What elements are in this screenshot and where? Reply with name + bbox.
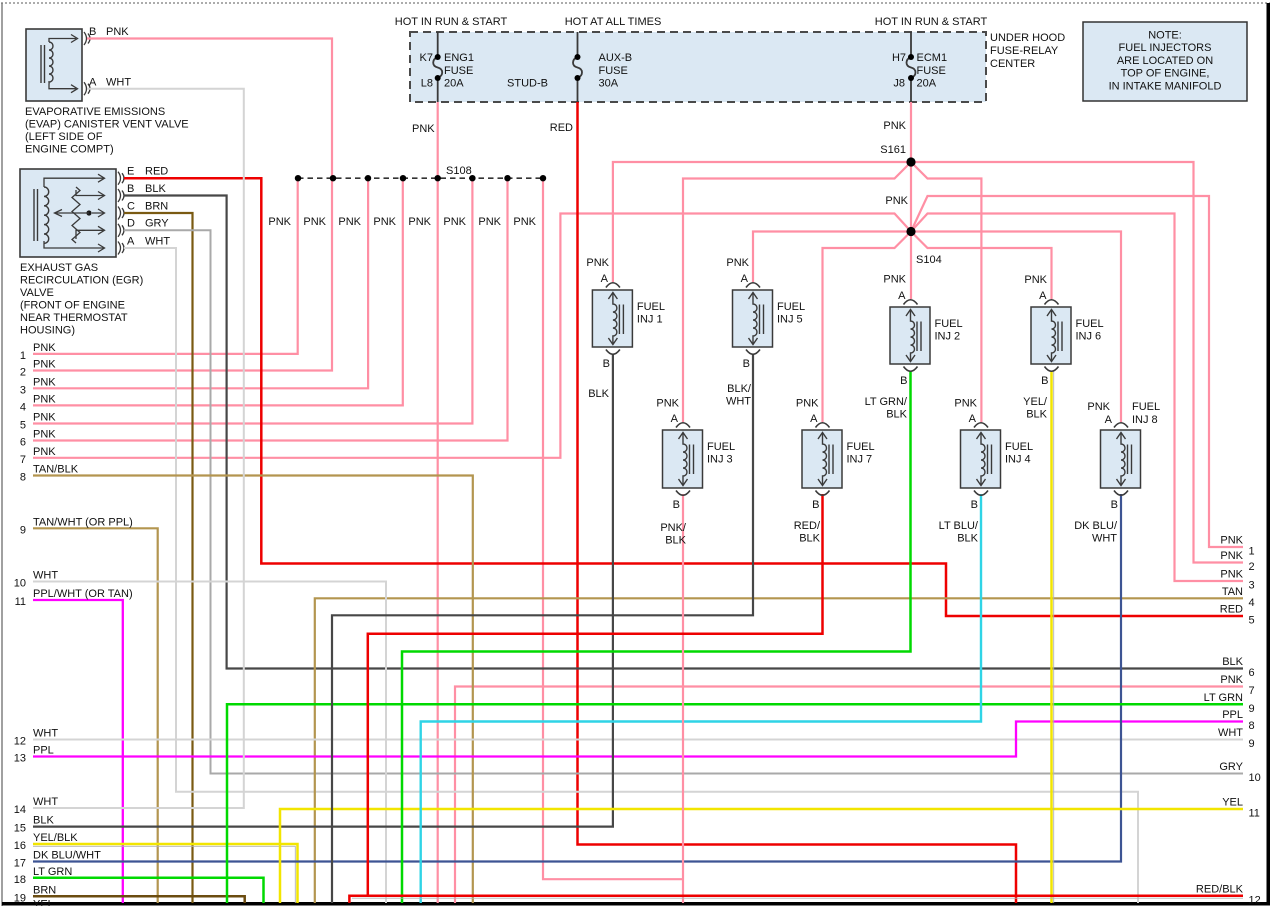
svg-text:A: A: [898, 290, 906, 302]
svg-text:B: B: [1111, 499, 1118, 511]
svg-text:14: 14: [14, 804, 26, 816]
svg-text:L8: L8: [421, 78, 433, 90]
EGR caption: [20, 262, 143, 337]
svg-text:RED/: RED/: [794, 520, 821, 532]
wire EGR E RED to right stub 5: [124, 178, 1243, 616]
svg-text:K7: K7: [420, 52, 433, 64]
svg-text:HOT IN RUN & START: HOT IN RUN & START: [395, 16, 508, 28]
wire INJ3 PNK/BLK down to bottom edge: [682, 494, 684, 903]
wire AUX-B RED down and across to bottom edge: [578, 102, 1017, 903]
svg-text:1: 1: [1249, 546, 1255, 558]
svg-text:9: 9: [1249, 738, 1255, 750]
svg-text:PNK: PNK: [373, 216, 396, 228]
wire left stub 3 PNK: [33, 178, 368, 388]
svg-text:LT GRN: LT GRN: [33, 866, 72, 878]
svg-text:EXHAUST GAS: EXHAUST GAS: [20, 262, 98, 274]
svg-text:3: 3: [1249, 580, 1255, 592]
svg-text:FUEL: FUEL: [1005, 441, 1033, 453]
svg-text:BLK: BLK: [799, 533, 820, 545]
wire S104 diag branch to INJ7 pin A: [823, 232, 912, 423]
svg-text:J8: J8: [893, 78, 905, 90]
svg-text:DK BLU/: DK BLU/: [1074, 520, 1118, 532]
injector pin labels row 1: [586, 257, 1048, 387]
wire INJ7 RED/BLK down and left: [368, 494, 823, 896]
wire ENG1 fuse PNK down to bottom edge: [437, 102, 439, 903]
svg-text:3: 3: [20, 384, 26, 396]
splice bus S108 dashed: [298, 177, 543, 179]
svg-text:PNK: PNK: [656, 398, 679, 410]
svg-text:D: D: [127, 218, 135, 230]
wire S161 left branch to INJ1 pin A: [613, 162, 911, 282]
svg-text:FUEL INJECTORS: FUEL INJECTORS: [1119, 42, 1212, 54]
svg-text:UNDER HOOD: UNDER HOOD: [990, 32, 1065, 44]
wire left stub 4 PNK: [33, 178, 403, 405]
svg-text:B: B: [743, 358, 750, 370]
wire left stub 10 WHT down to bottom edge: [33, 582, 386, 904]
svg-text:FUEL: FUEL: [637, 301, 665, 313]
label UNDER HOOD FUSE-RELAY CENTER: [990, 32, 1065, 70]
svg-text:YEL/: YEL/: [1023, 396, 1048, 408]
svg-text:WHT: WHT: [726, 396, 751, 408]
svg-text:YEL: YEL: [33, 899, 54, 906]
wire S161 right branch to right stub 2 PNK: [911, 162, 1243, 563]
svg-text:PNK: PNK: [1220, 569, 1243, 581]
U5 fuel injector 5: [733, 283, 773, 355]
svg-text:BLK: BLK: [33, 815, 54, 827]
svg-text:A: A: [810, 413, 818, 425]
wire INJ2 LT GRN/BLK down across to bottom edge: [402, 371, 911, 903]
injector return wire colour labels: [588, 383, 1118, 547]
svg-text:IN INTAKE MANIFOLD: IN INTAKE MANIFOLD: [1109, 80, 1222, 92]
svg-text:6: 6: [1249, 667, 1255, 679]
wire S108 bus 8th drop PNK to INJ3 return: [543, 178, 683, 879]
svg-text:RED/BLK: RED/BLK: [1196, 883, 1244, 895]
svg-text:A: A: [89, 77, 97, 89]
fuse box: [410, 32, 986, 102]
svg-text:(FRONT OF ENGINE: (FRONT OF ENGINE: [20, 300, 125, 312]
svg-text:16: 16: [14, 840, 26, 852]
svg-text:12: 12: [14, 736, 26, 748]
svg-text:GRY: GRY: [145, 218, 169, 230]
svg-text:PNK: PNK: [883, 274, 906, 286]
svg-text:PNK: PNK: [33, 412, 56, 424]
fuse ECM1 20A: [892, 32, 947, 102]
svg-text:11: 11: [1249, 808, 1260, 820]
page border left: [1, 3, 3, 906]
splice S104 dot: [906, 227, 915, 236]
svg-text:TAN: TAN: [1222, 586, 1243, 598]
svg-text:YEL/BLK: YEL/BLK: [33, 832, 78, 844]
wire EGR A WHT down across and to bottom edge: [124, 248, 1138, 903]
svg-text:RED: RED: [1220, 604, 1243, 616]
svg-text:S108: S108: [446, 165, 472, 177]
svg-text:WHT: WHT: [33, 570, 58, 582]
svg-text:8: 8: [1249, 720, 1255, 732]
svg-text:S104: S104: [916, 254, 942, 266]
svg-text:20A: 20A: [444, 78, 464, 90]
svg-text:11: 11: [15, 596, 26, 608]
wire left stub 1 PNK: [33, 178, 298, 354]
svg-text:C: C: [127, 200, 135, 212]
svg-text:12: 12: [1249, 894, 1261, 906]
svg-text:PNK: PNK: [268, 216, 291, 228]
svg-text:A: A: [1105, 414, 1113, 426]
svg-text:PNK/: PNK/: [660, 522, 687, 534]
wire S104 diag branch to right stub 1 PNK: [911, 196, 1243, 547]
svg-text:PNK: PNK: [33, 429, 56, 441]
svg-text:B: B: [89, 26, 96, 38]
svg-text:PNK: PNK: [1220, 550, 1243, 562]
svg-text:PNK: PNK: [1024, 274, 1047, 286]
EVAP caption: [25, 106, 189, 156]
splice S108 dots: [295, 175, 546, 181]
svg-text:10: 10: [1249, 772, 1261, 784]
svg-text:17: 17: [14, 858, 26, 870]
wire left stub 12 WHT to right stub 9 WHT: [33, 739, 1243, 741]
wire left stub 18 LT GRN down to bottom edge: [33, 878, 264, 903]
svg-text:A: A: [127, 235, 135, 247]
U8 fuel injector 8: [1101, 423, 1141, 496]
wire right stub 7 PNK: [455, 687, 1243, 904]
fuse ENG1 20A: [420, 32, 474, 102]
U3 fuel injector 3: [663, 423, 703, 496]
wire left stub 8 TAN/BLK down to bottom edge: [33, 476, 473, 904]
wire ECM1 fuse PNK to S161: [910, 102, 912, 162]
svg-text:BLK/: BLK/: [727, 383, 752, 395]
svg-text:TAN/BLK: TAN/BLK: [33, 464, 79, 476]
note box: [1083, 22, 1247, 101]
svg-text:BLK: BLK: [588, 388, 609, 400]
svg-text:VALVE: VALVE: [20, 287, 54, 299]
svg-text:B: B: [1041, 375, 1048, 387]
svg-text:8: 8: [20, 472, 26, 484]
svg-text:7: 7: [1249, 685, 1255, 697]
svg-text:30A: 30A: [599, 78, 619, 90]
svg-text:PNK: PNK: [303, 216, 326, 228]
svg-text:FUEL: FUEL: [1132, 401, 1160, 413]
svg-text:6: 6: [20, 437, 26, 449]
svg-text:PNK: PNK: [883, 120, 906, 132]
svg-text:PNK: PNK: [1220, 535, 1243, 547]
svg-text:FUSE: FUSE: [444, 65, 473, 77]
splice S161 dot: [906, 157, 915, 166]
svg-text:10: 10: [14, 578, 26, 590]
svg-text:LT GRN/: LT GRN/: [865, 396, 908, 408]
svg-text:(EVAP) CANISTER VENT VALVE: (EVAP) CANISTER VENT VALVE: [25, 119, 189, 131]
svg-text:(LEFT SIDE OF: (LEFT SIDE OF: [25, 131, 103, 143]
svg-text:DK BLU/WHT: DK BLU/WHT: [33, 850, 101, 862]
wire S161 diag branch to INJ4 pin A: [911, 162, 981, 422]
svg-text:PNK: PNK: [1087, 401, 1110, 413]
wire left stub 16 YEL/BLK down to bottom edge: [33, 844, 298, 903]
svg-text:INJ 2: INJ 2: [935, 331, 961, 343]
svg-text:NEAR THERMOSTAT: NEAR THERMOSTAT: [20, 312, 128, 324]
svg-text:BLK: BLK: [1222, 656, 1243, 668]
svg-text:1: 1: [20, 350, 26, 362]
svg-text:B: B: [812, 499, 819, 511]
svg-text:A: A: [741, 273, 749, 285]
svg-text:FUSE: FUSE: [599, 65, 628, 77]
svg-text:HOT AT ALL TIMES: HOT AT ALL TIMES: [565, 16, 662, 28]
svg-text:TAN/WHT (OR PPL): TAN/WHT (OR PPL): [33, 516, 133, 528]
wire S161 to S104 PNK: [910, 162, 912, 232]
wire EVAP B PNK to S108 bus and left stub 2: [33, 39, 332, 371]
wire left stub 7 PNK to splice S104: [33, 214, 911, 458]
svg-text:ENG1: ENG1: [444, 52, 474, 64]
svg-text:PNK: PNK: [1220, 674, 1243, 686]
svg-text:2: 2: [1249, 561, 1255, 573]
svg-text:A: A: [969, 413, 977, 425]
svg-text:WHT: WHT: [106, 77, 131, 89]
wire RED/BLK to right stub 12: [349, 896, 1243, 903]
svg-text:INJ 1: INJ 1: [637, 314, 663, 326]
U7 fuel injector 7: [802, 423, 842, 496]
wire left stub 9 TAN/WHT down to bottom edge: [33, 528, 158, 903]
svg-text:FUEL: FUEL: [777, 301, 805, 313]
svg-text:PNK: PNK: [338, 216, 361, 228]
svg-text:18: 18: [14, 874, 26, 886]
EGR pin labels: [127, 166, 170, 248]
labels PNK row above left stubs: [268, 216, 536, 228]
svg-text:5: 5: [20, 420, 26, 432]
svg-text:4: 4: [20, 401, 26, 413]
svg-text:GRY: GRY: [1219, 761, 1243, 773]
svg-text:PNK: PNK: [885, 195, 908, 207]
page border bottom: [2, 902, 1270, 906]
svg-text:WHT: WHT: [1092, 533, 1117, 545]
svg-text:INJ 5: INJ 5: [777, 314, 803, 326]
wire S104 down to INJ2 pin A: [910, 232, 912, 300]
svg-text:B: B: [603, 358, 610, 370]
svg-text:A: A: [671, 413, 679, 425]
svg-text:HOT IN RUN & START: HOT IN RUN & START: [875, 16, 988, 28]
svg-text:B: B: [900, 375, 907, 387]
svg-text:PNK: PNK: [954, 398, 977, 410]
svg-text:PNK: PNK: [796, 398, 819, 410]
svg-text:FUEL: FUEL: [707, 441, 735, 453]
wire EGR C BRN down to bottom edge: [124, 213, 193, 903]
svg-text:B: B: [971, 499, 978, 511]
wire INJ1 BLK to left stub 15: [33, 354, 613, 827]
svg-text:BLK: BLK: [665, 535, 686, 547]
page border top: [1, 2, 1270, 4]
svg-text:WHT: WHT: [33, 728, 58, 740]
svg-text:FUEL: FUEL: [1076, 318, 1104, 330]
wire S104 right branch to INJ8 pin A: [911, 232, 1121, 423]
U6 fuel injector 6: [1031, 300, 1071, 372]
svg-text:PNK: PNK: [586, 257, 609, 269]
svg-text:EVAPORATIVE EMISSIONS: EVAPORATIVE EMISSIONS: [25, 106, 165, 118]
U2 fuel injector 2: [890, 300, 930, 372]
wire left stub 19 BRN down to bottom edge: [33, 896, 245, 903]
wire INJ8 DK BLU/WHT to left stub 17: [33, 494, 1121, 862]
svg-text:FUEL: FUEL: [935, 318, 963, 330]
svg-text:FUSE: FUSE: [917, 65, 946, 77]
wire left stub 5 PNK: [33, 178, 472, 423]
wire left stub 14 WHT to EVAP pin A: [33, 89, 244, 808]
svg-text:20A: 20A: [917, 78, 937, 90]
svg-text:FUEL: FUEL: [847, 441, 875, 453]
svg-text:PNK: PNK: [408, 216, 431, 228]
svg-text:4: 4: [1249, 597, 1255, 609]
svg-text:FUSE-RELAY: FUSE-RELAY: [990, 45, 1059, 57]
EGR valve box: [20, 169, 124, 257]
wire INJ4 LT BLU/BLK down across to bottom edge: [421, 494, 981, 903]
svg-text:13: 13: [14, 753, 26, 765]
svg-text:PNK: PNK: [726, 257, 749, 269]
svg-text:INJ 6: INJ 6: [1076, 331, 1102, 343]
svg-text:LT BLU/: LT BLU/: [939, 520, 979, 532]
svg-text:ENGINE COMPT): ENGINE COMPT): [25, 144, 114, 156]
svg-text:TOP OF ENGINE,: TOP OF ENGINE,: [1121, 68, 1210, 80]
injector pin labels row 2: [656, 398, 1118, 512]
svg-text:INJ 8: INJ 8: [1132, 414, 1158, 426]
svg-text:7: 7: [20, 454, 26, 466]
U4 fuel injector 4: [961, 423, 1001, 496]
svg-text:WHT: WHT: [145, 235, 170, 247]
svg-text:BLK: BLK: [145, 183, 166, 195]
wire EGR B BLK to right stub 6: [124, 196, 1243, 669]
U1 fuel injector 1: [592, 283, 632, 355]
svg-text:2: 2: [20, 367, 26, 379]
svg-text:S161: S161: [880, 144, 906, 156]
wire INJ5 BLK/WHT down across to bottom edge: [332, 354, 753, 903]
svg-text:A: A: [1039, 290, 1047, 302]
svg-text:19: 19: [14, 892, 26, 904]
svg-text:WHT: WHT: [33, 796, 58, 808]
svg-text:LT GRN: LT GRN: [1204, 692, 1243, 704]
wire TAN bus to right stub 4: [315, 598, 1243, 903]
fuse AUX-B 30A: [507, 32, 632, 102]
wire left stub 11 PPL/WHT down to bottom edge: [33, 600, 123, 903]
svg-text:RED: RED: [550, 122, 573, 134]
svg-text:PNK: PNK: [106, 26, 129, 38]
svg-text:PNK: PNK: [513, 216, 536, 228]
svg-text:CENTER: CENTER: [990, 58, 1035, 70]
svg-text:PNK: PNK: [33, 393, 56, 405]
svg-text:PNK: PNK: [33, 342, 56, 354]
svg-text:YEL: YEL: [1222, 797, 1243, 809]
svg-text:PPL/WHT (OR TAN): PPL/WHT (OR TAN): [33, 588, 133, 600]
wire EGR D GRY to right stub 10: [124, 230, 1243, 773]
svg-text:INJ 4: INJ 4: [1005, 454, 1031, 466]
wire S104 left branch to INJ5 pin A: [753, 232, 911, 283]
wire S104 diag branch to INJ6 pin A: [911, 232, 1052, 300]
svg-text:PPL: PPL: [1222, 709, 1243, 721]
svg-text:STUD-B: STUD-B: [507, 78, 548, 90]
svg-text:ECM1: ECM1: [917, 52, 948, 64]
svg-text:H7: H7: [892, 52, 906, 64]
svg-text:BRN: BRN: [145, 200, 168, 212]
svg-text:9: 9: [1249, 703, 1255, 715]
svg-text:HOUSING): HOUSING): [20, 325, 75, 337]
svg-text:A: A: [601, 273, 609, 285]
svg-text:ARE LOCATED ON: ARE LOCATED ON: [1117, 55, 1213, 67]
svg-text:PNK: PNK: [33, 376, 56, 388]
svg-text:AUX-B: AUX-B: [599, 52, 633, 64]
svg-text:BLK: BLK: [1026, 409, 1047, 421]
svg-text:INJ 3: INJ 3: [707, 454, 733, 466]
svg-text:PNK: PNK: [478, 216, 501, 228]
wire right stub 9 LT GRN down to bottom edge: [227, 704, 1243, 903]
wire left stub 6 PNK: [33, 178, 508, 440]
svg-text:5: 5: [1249, 615, 1255, 627]
wire INJ6 YEL/BLK down to bottom edge: [1050, 371, 1053, 903]
page border right: [1267, 3, 1271, 904]
svg-text:INJ 7: INJ 7: [847, 454, 873, 466]
svg-text:BLK: BLK: [886, 409, 907, 421]
svg-text:PNK: PNK: [33, 446, 56, 458]
svg-text:PNK: PNK: [412, 123, 435, 135]
svg-text:NOTE:: NOTE:: [1148, 30, 1182, 42]
svg-text:PNK: PNK: [443, 216, 466, 228]
svg-text:15: 15: [14, 823, 26, 835]
wire left stub 13 PPL to right stub 8 PPL: [33, 722, 1243, 757]
right connector pin numbers and wire labels: [1196, 535, 1261, 906]
svg-text:PPL: PPL: [33, 745, 54, 757]
svg-text:RED: RED: [145, 166, 168, 178]
wire S104 diag branch to right stub 3 PNK: [911, 214, 1243, 582]
svg-text:BRN: BRN: [33, 884, 56, 896]
svg-text:BLK: BLK: [957, 533, 978, 545]
svg-text:PNK: PNK: [33, 359, 56, 371]
wire right stub 11 YEL down to bottom edge: [280, 809, 1243, 903]
svg-text:E: E: [127, 166, 134, 178]
svg-text:WHT: WHT: [1218, 727, 1243, 739]
wire S161 diag branch to INJ3 pin A: [683, 162, 911, 422]
svg-text:9: 9: [20, 524, 26, 536]
svg-text:B: B: [127, 183, 134, 195]
svg-text:B: B: [673, 499, 680, 511]
EVAP valve box: [26, 29, 90, 101]
svg-text:RECIRCULATION (EGR): RECIRCULATION (EGR): [20, 275, 143, 287]
left connector pin numbers and wire labels: [14, 342, 133, 906]
